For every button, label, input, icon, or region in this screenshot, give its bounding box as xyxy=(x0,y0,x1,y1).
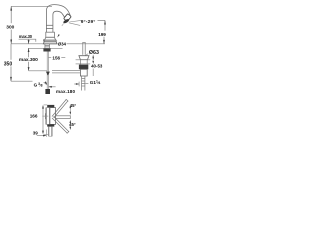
wire 39 dimension xyxy=(37,135,47,137)
wire G3/8 leader horizontal xyxy=(11,80,33,82)
node arrow down max300 at deck xyxy=(28,40,30,44)
node arrow up 40-53 xyxy=(92,61,94,64)
wire swing arrow upper xyxy=(69,106,71,113)
node arrow left max180 xyxy=(48,86,51,88)
sideview flange plate xyxy=(46,108,50,125)
node arrow up max300 below deck xyxy=(28,48,30,52)
node arrow up 300 top xyxy=(10,6,12,10)
wire angle lines 9-29 xyxy=(69,20,81,25)
node arrow up 199 top xyxy=(104,20,106,24)
node arrow down 300 bottom xyxy=(10,40,12,44)
wire basin deck lines xyxy=(76,60,91,64)
faucet drain-rod junction xyxy=(46,72,50,76)
wire max30 underline xyxy=(19,39,36,42)
sideview cross mark xyxy=(42,113,48,119)
node arrow down max300 at rod xyxy=(28,67,30,71)
svg-text:199: 199 xyxy=(98,32,106,37)
faucet stream tick xyxy=(62,23,64,26)
node arrow down 350 bottom xyxy=(10,77,12,81)
faucet G3/8 hose end xyxy=(45,89,50,94)
wire 350 dimension line xyxy=(10,44,12,60)
wire max300 dimension line xyxy=(28,39,30,44)
svg-text:G11⁄4: G11⁄4 xyxy=(90,80,101,85)
svg-text:39: 39 xyxy=(33,130,39,135)
node G1 1/4 tick xyxy=(85,83,88,85)
svg-text:40-53: 40-53 xyxy=(91,64,103,69)
wire drain rod to waste xyxy=(52,71,81,73)
svg-text:Ø34: Ø34 xyxy=(58,41,67,46)
node arrow down 40-53 xyxy=(92,57,94,60)
sideview pipe upper 45 xyxy=(52,99,69,118)
faucet cartridge body xyxy=(46,32,55,37)
svg-text:9°-29°: 9°-29° xyxy=(81,19,96,25)
node arrow right max180 xyxy=(76,83,79,85)
faucet escutcheon upper xyxy=(44,40,56,42)
wire max180 dimension xyxy=(48,82,79,87)
faucet joint line xyxy=(46,24,53,26)
wire deck top line xyxy=(11,43,56,45)
waste mounting nut xyxy=(79,65,88,70)
waste flange xyxy=(79,56,89,60)
node arrow down escutcheon xyxy=(43,40,45,43)
faucet spout arc xyxy=(46,5,70,33)
waste body xyxy=(80,69,87,76)
faucet aerator nozzle xyxy=(64,14,72,22)
node arrow O34 pointer xyxy=(57,34,60,37)
waste shank through deck xyxy=(80,60,87,65)
wire top extension line xyxy=(11,5,52,7)
svg-text:166: 166 xyxy=(30,114,38,119)
sideview pipe horizontal xyxy=(56,115,71,119)
faucet shank xyxy=(45,44,50,49)
node 156 side dashes xyxy=(48,57,65,59)
faucet mounting nut xyxy=(43,49,50,52)
faucet cone xyxy=(45,37,56,40)
wire 40-53 dimension xyxy=(92,55,94,76)
svg-text:156: 156 xyxy=(52,55,60,60)
wire 199 dimension line xyxy=(98,19,106,21)
node arrow down 199 bottom xyxy=(103,40,105,44)
wire rod level extension xyxy=(29,70,47,72)
svg-text:350: 350 xyxy=(4,61,13,67)
sideview bottom rod xyxy=(49,127,52,137)
svg-text:Ø63: Ø63 xyxy=(89,50,99,56)
waste tailpipe xyxy=(82,76,85,91)
wire deck bottom line xyxy=(28,47,63,49)
node G3/8 arrow xyxy=(45,81,48,85)
svg-text:max.300: max.300 xyxy=(19,57,38,63)
svg-text:300: 300 xyxy=(6,25,14,31)
sideview bottom cap xyxy=(47,124,54,126)
sideview body xyxy=(50,108,56,125)
wire 300 dimension line xyxy=(10,6,12,23)
svg-text:max.180: max.180 xyxy=(56,89,75,94)
wire 166 dimension xyxy=(42,106,44,133)
sideview cap xyxy=(47,105,54,108)
faucet supply pipes xyxy=(47,52,48,90)
wire swing arrow lower xyxy=(69,121,71,128)
faucet aerator dark face xyxy=(63,18,70,24)
svg-text:max.30: max.30 xyxy=(19,34,33,39)
sideview pipe lower 45 xyxy=(52,116,69,133)
waste pull rod xyxy=(82,43,85,55)
waste diam63 leader xyxy=(84,54,88,57)
faucet escutcheon lower xyxy=(43,42,57,44)
